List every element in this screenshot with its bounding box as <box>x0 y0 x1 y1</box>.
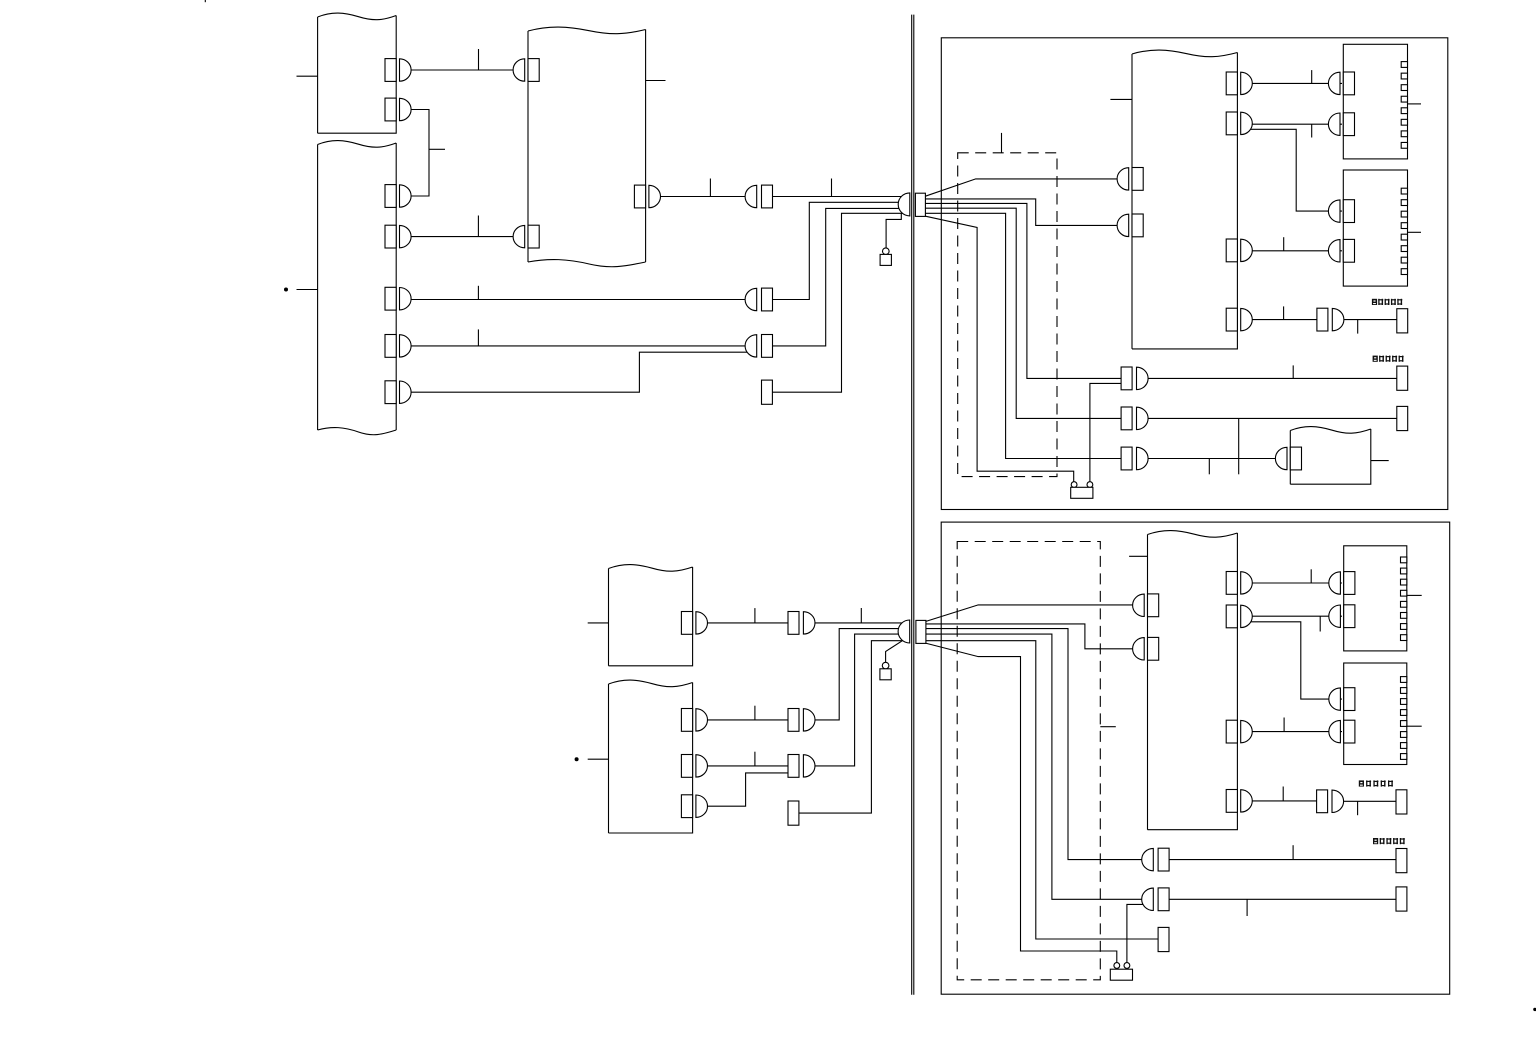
connector CN54 on TB4 <box>1329 688 1341 710</box>
connector CN36 on P7 <box>681 755 692 778</box>
wire trunk to CN17 <box>925 199 1121 226</box>
connector CN57 (end) <box>1396 790 1407 814</box>
wire CN41 to trunk CN42 <box>799 641 904 813</box>
connector CN53 on TB3 <box>1329 605 1341 627</box>
wire CN22 to TB1 <box>1249 123 1342 125</box>
wire trunk to CN19 <box>925 208 1121 418</box>
inline connector CN11 <box>745 185 757 207</box>
stub on board P2 left <box>297 289 318 291</box>
wire CN4 to CN9b <box>408 236 517 238</box>
connector CN34 on P6 <box>681 612 692 635</box>
label 回収ベルト (lower) <box>1359 780 1364 786</box>
dot left of board P2 <box>284 288 288 292</box>
connector CN6 on P2 <box>385 335 396 358</box>
wire tick <box>1283 306 1285 319</box>
wire tick on DB2 right <box>1100 726 1116 728</box>
wire CN5 to CN12 <box>408 299 749 301</box>
connector CN48 on P8 <box>1226 790 1237 813</box>
wire tick <box>477 216 479 237</box>
wire tick <box>1357 801 1359 815</box>
dot left of board P7 <box>575 757 579 761</box>
connector CN26 on TB1 <box>1328 113 1340 135</box>
connector CN9 on P3 <box>513 225 525 247</box>
board P6 (torn-edge box) <box>609 565 693 666</box>
inline connector CN40 <box>788 755 799 778</box>
board P7 (torn-edge box) <box>609 680 693 833</box>
trunk connector CN15 (right half) <box>915 193 925 216</box>
connector CN30 (end) <box>1397 309 1408 333</box>
connector CN22 on P4 <box>1226 112 1237 135</box>
stub on TB4 right <box>1407 725 1422 727</box>
wire tick <box>860 608 862 623</box>
wire CN50 to CN59 <box>1169 898 1396 900</box>
enclosure frame F1 <box>941 38 1448 510</box>
connector CN17 on P4 <box>1117 214 1129 236</box>
wire CN6 to CN13 <box>408 345 749 347</box>
wire tick <box>1282 787 1284 801</box>
wire trunk to CN44 <box>926 624 1137 649</box>
connector CN8 on P3 <box>513 59 525 81</box>
connector CN2 on P1 <box>385 98 396 121</box>
wire CN12 to trunk CN15 <box>773 202 906 299</box>
wire CN34 to CN38 <box>704 622 788 624</box>
connector CN59 (end) <box>1396 887 1407 911</box>
wire tick on DB1 top <box>1001 133 1003 153</box>
wire CN38 to trunk CN42 <box>815 622 906 624</box>
wire CN40 to trunk CN42 <box>815 634 906 766</box>
wire CN24 to CN29 <box>1249 319 1317 321</box>
connector CN46 on P8 <box>1226 605 1237 628</box>
wire CN29 to CN30 <box>1344 319 1397 321</box>
stub on TB3 right <box>1407 594 1422 596</box>
trunk connector CN42 (left half) <box>898 620 910 643</box>
connector CN5 on P2 <box>385 287 396 310</box>
board P5 (small torn-edge box) <box>1290 427 1371 485</box>
connector CN47 on P8 <box>1226 720 1237 743</box>
stub on board P4 left <box>1110 98 1132 100</box>
wire CN18 to CN31 <box>1148 377 1397 379</box>
inline connector CN39 <box>788 709 799 732</box>
wire CN23 to TB2 <box>1249 250 1342 252</box>
ground wire (top trunk) <box>886 213 901 248</box>
connector CN55 on TB4 <box>1329 720 1341 742</box>
connector CN43 on P8 <box>1133 594 1145 616</box>
board P3 (torn-edge box, middle) <box>528 27 646 267</box>
wire CN13 to trunk CN15 <box>773 208 906 346</box>
inline connector CN49 <box>1142 848 1154 870</box>
label 回カッター (lower) <box>1373 838 1378 844</box>
terminal block TB1 <box>1343 44 1407 159</box>
connector CN25 on TB1 <box>1328 72 1340 94</box>
wire CN36 to CN40 <box>704 765 788 767</box>
label 回カッター <box>1373 356 1378 362</box>
wire tick <box>477 329 479 346</box>
stub on board P3 right <box>646 80 666 82</box>
connector CN1 on P1 <box>385 59 396 82</box>
wire CN35 to CN39 <box>704 719 788 721</box>
wire tick <box>831 179 833 197</box>
dot at sheet right edge <box>1533 1008 1536 1011</box>
wire trunk to CN18 <box>925 203 1121 378</box>
ground wire (diagonal from trunk) <box>926 643 1117 962</box>
connector CN21 on P4 <box>1226 72 1237 95</box>
wire tick <box>1311 70 1313 83</box>
wire CN22 to TB2 (branch) <box>1250 129 1342 211</box>
ground wire to CN50 <box>1127 904 1145 962</box>
wire tick at sheet top <box>204 0 206 2</box>
stub on TB2 right <box>1408 231 1422 233</box>
connector CN31 (end) <box>1397 366 1408 390</box>
ground G1 <box>883 248 890 255</box>
wire CN11 to trunk CN15 <box>773 196 906 198</box>
inline connector CN12 <box>745 288 757 310</box>
wire trunk to CN51 <box>926 641 1159 939</box>
connector CN52 on TB3 <box>1329 572 1341 594</box>
enclosure frame F2 <box>941 522 1449 994</box>
trunk connector CN42 (right half) <box>916 620 926 643</box>
wire tick <box>429 148 445 150</box>
wire CN46 to TB3 <box>1249 615 1342 617</box>
connector CN10 on P3 <box>634 185 645 208</box>
inline connector CN18 <box>1121 367 1132 390</box>
ground wire (bottom trunk) <box>886 641 902 662</box>
label 回収ベルト <box>1372 299 1377 305</box>
wire trunk to CN16 (diagonal) <box>925 179 1121 196</box>
connector CN7 on P2 <box>385 381 396 404</box>
stub on TB1 right <box>1408 103 1422 105</box>
terminal block TB2 <box>1343 170 1407 286</box>
wire tick <box>1283 237 1285 251</box>
stub on board P1 left <box>297 75 318 77</box>
wire tick <box>1283 718 1285 732</box>
connector CN45 on P8 <box>1226 572 1237 595</box>
partition wall (double line) <box>911 15 913 995</box>
wire tick <box>709 179 711 197</box>
connector CN44 on P8 <box>1133 638 1145 660</box>
connector CN16 on P4 <box>1117 168 1129 190</box>
wire CN39 to trunk CN42 <box>815 629 906 720</box>
wire branch <box>1238 418 1240 474</box>
wire tick <box>754 752 756 766</box>
wire trunk to CN43 (diagonal) <box>926 605 1137 622</box>
wire tick <box>754 608 756 623</box>
connector CN14 (rect only) <box>762 380 773 404</box>
connector CN27 on TB2 <box>1328 200 1340 222</box>
board P1 (torn-edge box, upper left) <box>318 13 397 133</box>
wire CN2 to CN9 <box>408 110 430 197</box>
ground wire (diagonal from trunk) <box>925 216 1073 482</box>
wire CN45 to TB3 <box>1249 582 1342 584</box>
inline connector CN13 <box>745 335 757 357</box>
terminal block TB3 <box>1344 546 1407 651</box>
wire tick <box>1357 320 1359 334</box>
wire CN56 to CN57 <box>1343 800 1396 802</box>
inline connector CN20 <box>1121 447 1132 470</box>
stub on board P5 right <box>1371 460 1389 462</box>
wire tick <box>1310 569 1312 583</box>
connector CN41 (rect only) <box>788 801 799 825</box>
connector CN35 on P7 <box>681 709 692 732</box>
wire tick <box>1246 899 1248 916</box>
trunk connector CN15 (left half) <box>898 193 910 216</box>
connector CN4 on P2 <box>385 225 396 248</box>
stub on board P8 left <box>1129 555 1147 557</box>
wire tick <box>478 49 480 70</box>
connector CN24 on P4 <box>1226 308 1237 331</box>
inline connector CN38 <box>788 612 799 635</box>
ground G3 <box>882 662 889 669</box>
ground wire to CN18 <box>1090 383 1121 482</box>
wire tick <box>1208 459 1210 475</box>
wire CN48 to CN56 <box>1249 800 1317 802</box>
wire tick <box>1319 616 1321 631</box>
connector CN33 on P5 <box>1275 447 1287 469</box>
wire tick <box>477 286 479 300</box>
inline connector CN29 <box>1317 308 1328 331</box>
wire trunk to CN50 <box>926 634 1148 899</box>
wire CN7 to CN13 (lower pin) <box>408 352 750 392</box>
stub on board P7 left <box>588 758 609 760</box>
dashed enclosure DB2 <box>957 542 1100 980</box>
wire CN1 to CN8 <box>408 69 517 71</box>
inline connector CN56 <box>1317 790 1328 813</box>
connector CN23 on P4 <box>1226 239 1237 262</box>
board P8 (torn-edge box, in F2) <box>1148 531 1238 830</box>
wire tick <box>754 706 756 720</box>
connector CN28 on TB2 <box>1328 240 1340 262</box>
wire trunk to CN49 <box>926 629 1146 860</box>
connector CN51 (rect only) <box>1158 927 1169 951</box>
wire tick <box>1292 845 1294 859</box>
wire trunk to CN20 <box>925 213 1121 458</box>
inline connector CN50 <box>1142 888 1154 910</box>
wire CN19 to CN32 <box>1148 417 1397 419</box>
wire tick <box>1292 365 1294 378</box>
wire tick <box>1311 124 1313 137</box>
wire CN21 to TB1 <box>1249 82 1342 84</box>
stub on board P6 left <box>588 622 609 624</box>
wire CN20 to P5 <box>1148 458 1279 460</box>
ground G4 (double) <box>1114 963 1120 969</box>
wire CN47 to TB4 <box>1249 731 1342 733</box>
wire CN10 to CN11 <box>657 196 748 198</box>
wire CN46 to TB4 (branch) <box>1250 622 1342 699</box>
connector CN32 (end) <box>1397 406 1408 430</box>
terminal block TB4 <box>1344 663 1407 765</box>
connector CN3 on P2 <box>385 185 396 208</box>
wire CN37 to CN40 (lower pin) <box>704 773 788 806</box>
ground G2 (double) <box>1071 482 1077 488</box>
wire CN14 to trunk CN15 <box>772 213 904 392</box>
board P2 (torn-edge box, left) <box>318 141 397 435</box>
connector CN58 (end) <box>1396 849 1407 873</box>
board P4 (torn-edge box, in F1) <box>1132 50 1237 349</box>
dashed enclosure DB1 <box>958 153 1057 477</box>
inline connector CN19 <box>1121 407 1132 430</box>
connector CN37 on P7 <box>681 795 692 818</box>
wire CN49 to CN58 <box>1169 859 1396 861</box>
